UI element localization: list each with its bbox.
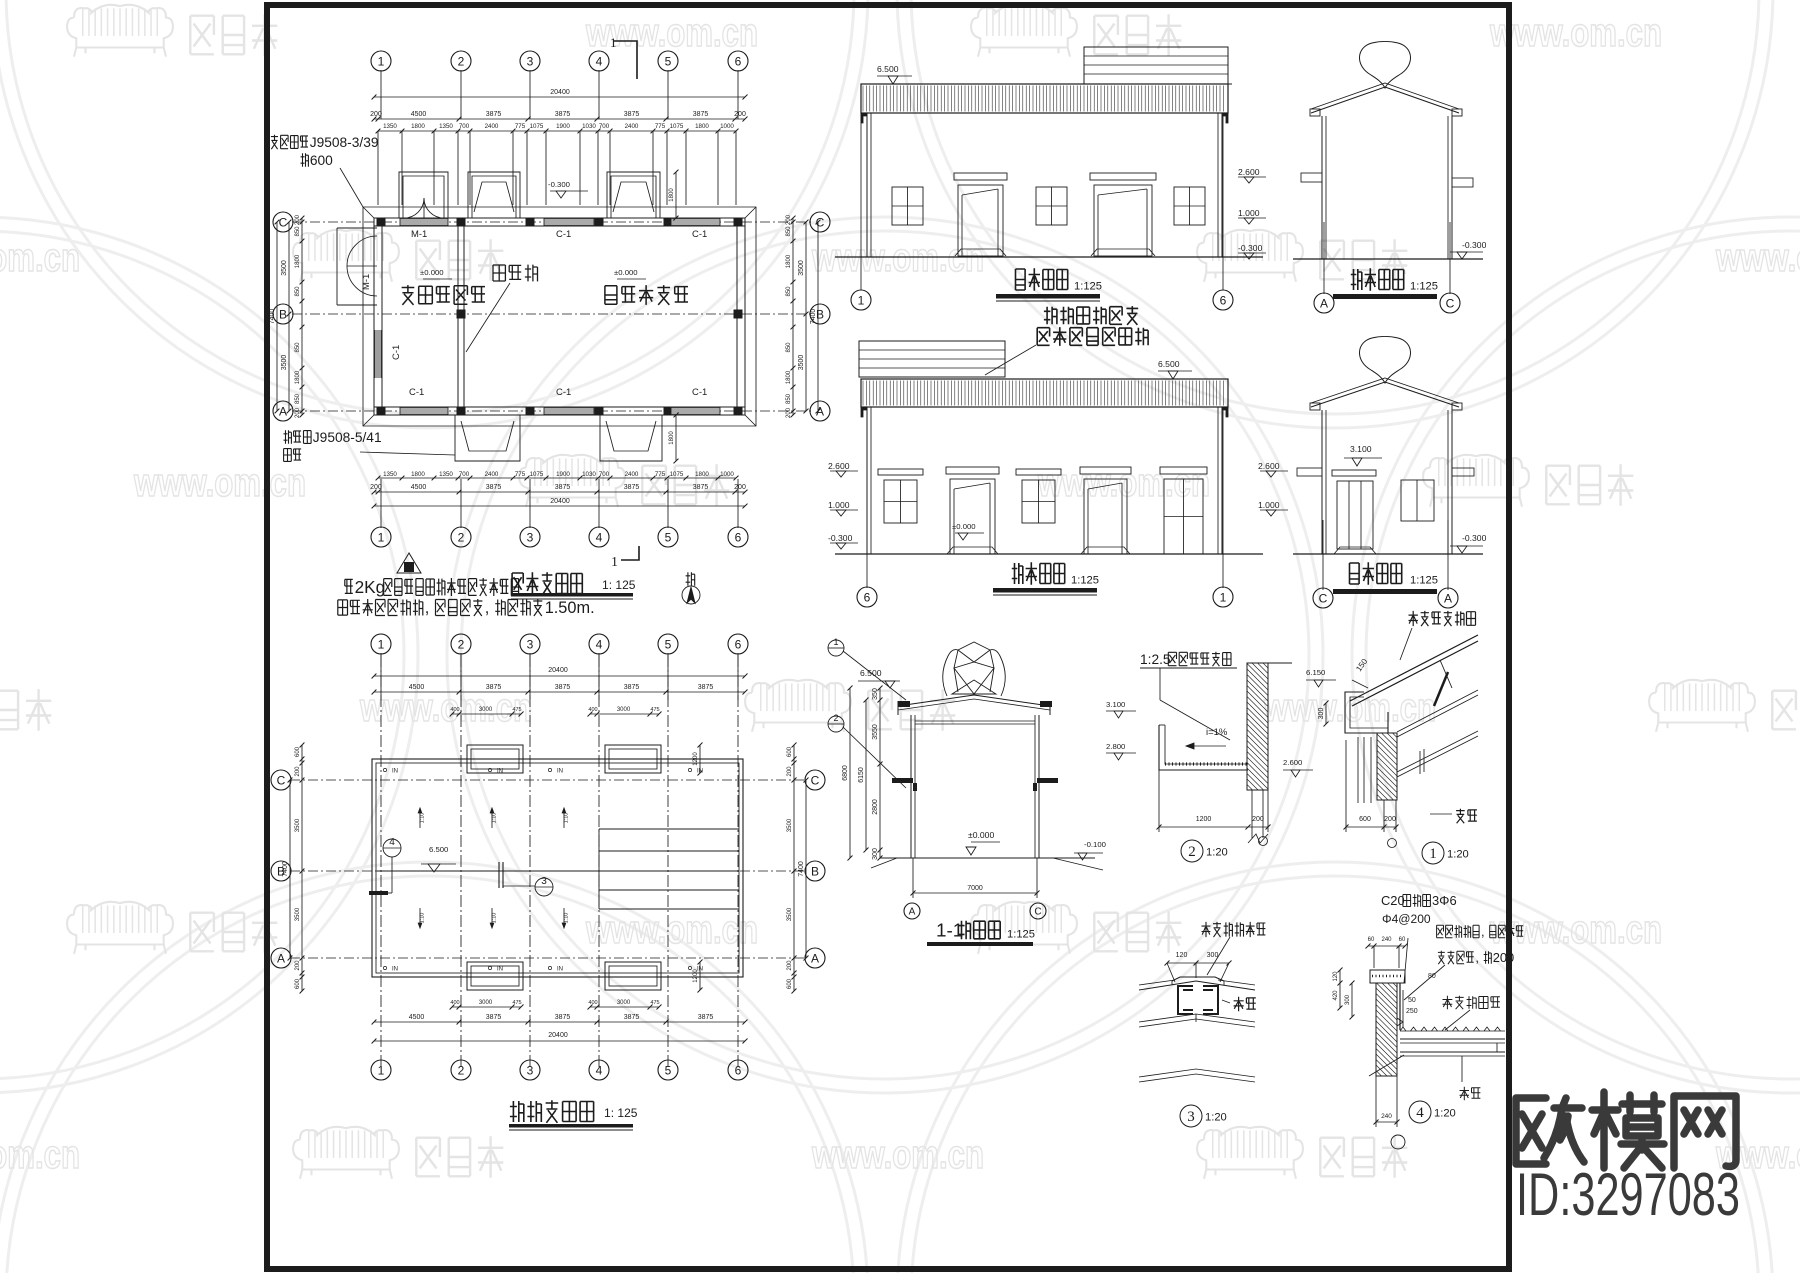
svg-text:3000: 3000 [479, 707, 493, 713]
svg-text:775: 775 [515, 123, 526, 130]
svg-text:3: 3 [527, 637, 534, 651]
svg-text:200: 200 [295, 766, 301, 777]
svg-text:120: 120 [1333, 971, 1339, 982]
svg-text:2: 2 [458, 1063, 465, 1077]
svg-text:600: 600 [295, 978, 301, 989]
svg-text:4500: 4500 [409, 1014, 425, 1021]
svg-text:50: 50 [1408, 997, 1416, 1004]
svg-text:5: 5 [665, 1063, 672, 1077]
svg-text:600: 600 [787, 978, 793, 989]
svg-text:1:2.5: 1:2.5 [1140, 652, 1171, 667]
svg-text:200: 200 [1252, 816, 1264, 823]
svg-text:-0.100: -0.100 [1084, 840, 1106, 849]
svg-text:1:10: 1:10 [564, 813, 570, 824]
svg-text:200: 200 [787, 766, 793, 777]
svg-text:1:10: 1:10 [420, 813, 426, 824]
svg-text:600: 600 [310, 153, 333, 168]
svg-text:775: 775 [515, 471, 526, 478]
detail 3 ridge 1:20 [1139, 922, 1265, 1127]
svg-text:1: 1 [378, 54, 385, 68]
svg-text:2.600: 2.600 [1238, 167, 1260, 177]
svg-text:1:20: 1:20 [1447, 848, 1469, 860]
svg-text:200: 200 [786, 407, 792, 418]
east elevation 东立面图 [1293, 42, 1487, 314]
svg-text:700: 700 [599, 471, 610, 478]
svg-text:20400: 20400 [548, 667, 568, 674]
roof plan 屋顶平面图 [271, 634, 825, 1130]
svg-text:www.om.cn: www.om.cn [1489, 908, 1662, 952]
svg-text:420: 420 [1333, 990, 1339, 1001]
svg-text:3500: 3500 [787, 818, 793, 832]
svg-text:475: 475 [512, 1000, 521, 1006]
svg-text:1.50m.: 1.50m. [545, 599, 595, 617]
svg-text:775: 775 [655, 471, 666, 478]
svg-text:1: 1 [858, 293, 865, 307]
svg-text:1000: 1000 [720, 123, 734, 130]
svg-text:,: , [425, 599, 430, 617]
svg-text:1030: 1030 [582, 471, 596, 478]
svg-text:1:125: 1:125 [1071, 574, 1099, 586]
svg-text:1900: 1900 [556, 471, 570, 478]
svg-text:850: 850 [295, 342, 301, 353]
svg-text:3500: 3500 [295, 818, 301, 832]
svg-text:600: 600 [787, 746, 793, 757]
svg-text:6.500: 6.500 [860, 668, 882, 678]
svg-text:3875: 3875 [555, 484, 571, 491]
svg-text:-0.300: -0.300 [548, 180, 570, 189]
svg-text:1800: 1800 [669, 431, 675, 445]
svg-text:2: 2 [458, 54, 465, 68]
svg-text:4: 4 [389, 837, 395, 848]
svg-text:3Φ6: 3Φ6 [1432, 893, 1457, 908]
svg-text:M-1: M-1 [411, 229, 427, 240]
svg-text:6: 6 [735, 54, 742, 68]
west elevation 西立面图 [1258, 337, 1487, 661]
svg-text:3875: 3875 [555, 684, 571, 691]
svg-text:3875: 3875 [698, 1014, 714, 1021]
svg-text:700: 700 [459, 123, 470, 130]
svg-text:A: A [1444, 591, 1452, 605]
svg-text:850: 850 [295, 226, 301, 237]
svg-text:3000: 3000 [617, 707, 631, 713]
svg-text:850: 850 [786, 226, 792, 237]
svg-text:C: C [1034, 907, 1041, 918]
svg-text:A: A [277, 951, 285, 965]
svg-text:3875: 3875 [486, 484, 502, 491]
svg-text:4: 4 [1416, 1105, 1424, 1121]
svg-text:400: 400 [450, 707, 459, 713]
svg-text:20400: 20400 [550, 89, 570, 96]
svg-text:1:125: 1:125 [1074, 280, 1102, 292]
svg-text:C-1: C-1 [556, 387, 571, 398]
svg-text:C: C [277, 773, 286, 787]
svg-text:5: 5 [665, 54, 672, 68]
svg-text:2400: 2400 [485, 471, 499, 478]
svg-text:J9508-5/41: J9508-5/41 [313, 430, 382, 445]
svg-text:B: B [816, 307, 824, 321]
svg-text:1075: 1075 [670, 123, 684, 130]
north elevation 北立面图 [828, 341, 1263, 607]
svg-text:3875: 3875 [555, 111, 571, 118]
svg-text:3000: 3000 [479, 1000, 493, 1006]
svg-text:3875: 3875 [486, 684, 502, 691]
ground floor plan 底层平面图 [269, 35, 830, 617]
svg-text:www.om.cn: www.om.cn [1489, 11, 1662, 55]
svg-text:1:125: 1:125 [1007, 928, 1035, 940]
svg-text:2.600: 2.600 [1283, 758, 1302, 767]
svg-text:www.om.cn: www.om.cn [133, 461, 306, 505]
svg-text:1-1: 1-1 [936, 921, 963, 942]
svg-text:±0.000: ±0.000 [968, 830, 994, 840]
svg-text:3: 3 [1187, 1109, 1195, 1125]
svg-text:850: 850 [295, 286, 301, 297]
svg-text:3500: 3500 [798, 260, 805, 276]
svg-text:2.600: 2.600 [1258, 461, 1280, 471]
svg-text:60: 60 [1399, 937, 1406, 943]
svg-text:A: A [1320, 296, 1328, 310]
svg-text:1:10: 1:10 [492, 813, 498, 824]
svg-text:B: B [279, 307, 287, 321]
svg-text:7400: 7400 [798, 861, 805, 877]
svg-text:300: 300 [1318, 708, 1325, 720]
svg-text:A: A [811, 951, 819, 965]
svg-text:475: 475 [650, 1000, 659, 1006]
svg-text:3500: 3500 [281, 355, 288, 371]
svg-text:1: 1 [833, 637, 838, 647]
svg-text:ID:3297083: ID:3297083 [1516, 1161, 1740, 1228]
svg-text:-0.300: -0.300 [1462, 240, 1487, 250]
svg-text:200: 200 [1493, 950, 1515, 965]
svg-text:850: 850 [786, 286, 792, 297]
section 1-1剖面图 [828, 637, 1106, 946]
svg-text:200: 200 [1384, 816, 1396, 823]
svg-text:3500: 3500 [798, 355, 805, 371]
detail 1 eave 1:20 [1306, 635, 1478, 864]
svg-text:IN: IN [557, 967, 563, 973]
svg-text:1800: 1800 [295, 254, 301, 268]
svg-text:80: 80 [1428, 973, 1436, 980]
svg-text:1350: 1350 [439, 123, 453, 130]
svg-text:1800: 1800 [411, 123, 425, 130]
south elevation 南立面图 [835, 47, 1266, 375]
svg-text:1200: 1200 [1196, 816, 1212, 823]
svg-text:700: 700 [599, 123, 610, 130]
svg-text:,: , [485, 599, 490, 617]
svg-text:3875: 3875 [624, 684, 640, 691]
svg-text:C: C [1446, 296, 1455, 310]
svg-text:200: 200 [370, 111, 382, 118]
svg-text:C-1: C-1 [556, 229, 571, 240]
svg-text:7400: 7400 [810, 309, 817, 325]
svg-text:3000: 3000 [617, 1000, 631, 1006]
svg-text:475: 475 [650, 707, 659, 713]
svg-text:300: 300 [872, 848, 879, 860]
svg-text:1000: 1000 [720, 471, 734, 478]
svg-text:www.om.cn: www.om.cn [585, 908, 758, 952]
svg-text:300: 300 [1207, 952, 1219, 959]
svg-text:IN: IN [497, 967, 503, 973]
svg-text:2.800: 2.800 [1106, 742, 1125, 751]
svg-text:1350: 1350 [439, 471, 453, 478]
svg-text:2400: 2400 [485, 123, 499, 130]
svg-text:1: 1 [378, 1063, 385, 1077]
svg-text:-0.300: -0.300 [1238, 243, 1263, 253]
svg-text:1:20: 1:20 [1205, 1111, 1227, 1123]
svg-text:850: 850 [786, 342, 792, 353]
svg-text:1.000: 1.000 [1238, 208, 1260, 218]
svg-text:1800: 1800 [786, 254, 792, 268]
svg-text:2400: 2400 [625, 123, 639, 130]
svg-text:2.600: 2.600 [828, 461, 850, 471]
svg-text:6: 6 [864, 590, 871, 604]
svg-text:400: 400 [450, 1000, 459, 1006]
svg-text:IN: IN [557, 769, 563, 775]
svg-text:240: 240 [1381, 937, 1392, 943]
svg-text:i=1%: i=1% [1206, 727, 1228, 738]
svg-text:6150: 6150 [858, 767, 865, 783]
svg-text:6800: 6800 [842, 765, 849, 781]
svg-text:3875: 3875 [693, 111, 709, 118]
svg-text:850: 850 [295, 393, 301, 404]
svg-text:M-1: M-1 [361, 274, 372, 290]
svg-text:200: 200 [295, 407, 301, 418]
svg-text:600: 600 [295, 746, 301, 757]
svg-text:475: 475 [512, 707, 521, 713]
svg-text:4: 4 [596, 54, 603, 68]
svg-text:1: 1 [610, 35, 617, 50]
svg-text:200: 200 [786, 214, 792, 225]
svg-text:350: 350 [872, 688, 879, 700]
svg-text:1.000: 1.000 [828, 500, 850, 510]
svg-text:1:125: 1:125 [1410, 574, 1438, 586]
svg-text:3875: 3875 [693, 484, 709, 491]
svg-text:6: 6 [1220, 293, 1227, 307]
svg-text:2: 2 [1188, 844, 1196, 860]
svg-text:1030: 1030 [582, 123, 596, 130]
svg-text:1: 1 [378, 637, 385, 651]
svg-text:C-1: C-1 [409, 387, 424, 398]
svg-text:Φ4@200: Φ4@200 [1382, 912, 1431, 926]
svg-text:1:10: 1:10 [492, 913, 498, 924]
svg-text:775: 775 [655, 123, 666, 130]
svg-text:3875: 3875 [486, 1014, 502, 1021]
svg-text:3500: 3500 [295, 907, 301, 921]
svg-text:1:20: 1:20 [1206, 846, 1228, 858]
svg-text:IN: IN [497, 769, 503, 775]
svg-text:1: 1 [611, 555, 618, 570]
svg-text:7400: 7400 [282, 861, 289, 877]
svg-text:20400: 20400 [548, 1032, 568, 1039]
svg-text:200: 200 [787, 960, 793, 971]
svg-text:6.500: 6.500 [877, 64, 899, 74]
svg-text:3500: 3500 [281, 260, 288, 276]
svg-text:1350: 1350 [383, 123, 397, 130]
svg-text:C: C [1319, 591, 1328, 605]
svg-text:IN: IN [392, 967, 398, 973]
svg-text:20400: 20400 [550, 498, 570, 505]
svg-text:3500: 3500 [787, 907, 793, 921]
svg-text:600: 600 [1359, 816, 1371, 823]
svg-text:240: 240 [1381, 1113, 1392, 1120]
svg-text:1: 1 [1429, 846, 1437, 862]
svg-text:www.om.cn: www.om.cn [0, 1133, 80, 1177]
svg-text:1:125: 1:125 [1410, 280, 1438, 292]
svg-text:300: 300 [1345, 994, 1351, 1005]
svg-text:6.500: 6.500 [1158, 359, 1180, 369]
svg-text:3550: 3550 [872, 724, 879, 740]
svg-text:C: C [279, 215, 288, 229]
svg-text:4: 4 [596, 637, 603, 651]
svg-text:2400: 2400 [625, 471, 639, 478]
svg-text:1: 1 [1220, 590, 1227, 604]
svg-text:1:20: 1:20 [1434, 1107, 1456, 1119]
svg-text:250: 250 [1406, 1008, 1418, 1015]
svg-text:200: 200 [734, 484, 746, 491]
svg-text:3875: 3875 [624, 1014, 640, 1021]
svg-text:1800: 1800 [669, 188, 675, 202]
svg-text:200: 200 [734, 111, 746, 118]
svg-text:3: 3 [527, 1063, 534, 1077]
svg-text:1.000: 1.000 [1258, 500, 1280, 510]
svg-text:1200: 1200 [693, 752, 699, 766]
svg-text:4500: 4500 [411, 111, 427, 118]
svg-text:1200: 1200 [693, 969, 699, 983]
svg-text:3: 3 [541, 876, 547, 887]
svg-text:www.om.cn: www.om.cn [811, 1133, 984, 1177]
svg-text:4: 4 [596, 1063, 603, 1077]
svg-text:±0.000: ±0.000 [952, 522, 976, 531]
svg-text:IN: IN [392, 769, 398, 775]
svg-text:1: 125: 1: 125 [604, 1106, 638, 1120]
svg-text:-0.300: -0.300 [1462, 533, 1487, 543]
svg-text:±0.000: ±0.000 [614, 268, 638, 277]
svg-text:www.om.cn: www.om.cn [1715, 236, 1800, 280]
svg-text:1800: 1800 [695, 123, 709, 130]
svg-text:3875: 3875 [486, 111, 502, 118]
detail 2 gutter 1:20 [1106, 652, 1313, 862]
svg-text:1:10: 1:10 [564, 913, 570, 924]
svg-text:200: 200 [370, 484, 382, 491]
svg-text:1800: 1800 [411, 471, 425, 478]
svg-text:1075: 1075 [670, 471, 684, 478]
svg-text:3875: 3875 [698, 684, 714, 691]
svg-text:1075: 1075 [530, 471, 544, 478]
svg-text:±0.000: ±0.000 [420, 268, 444, 277]
svg-text:-0.300: -0.300 [828, 533, 853, 543]
svg-text:6.150: 6.150 [1306, 668, 1325, 677]
svg-text:2: 2 [458, 530, 465, 544]
svg-text:6: 6 [735, 637, 742, 651]
svg-text:3: 3 [527, 530, 534, 544]
svg-text:4500: 4500 [409, 684, 425, 691]
svg-text:5: 5 [665, 637, 672, 651]
svg-text:3875: 3875 [555, 1014, 571, 1021]
svg-text:1:10: 1:10 [420, 913, 426, 924]
svg-text:,: , [1481, 924, 1485, 939]
svg-text:C-1: C-1 [692, 387, 707, 398]
svg-text:850: 850 [786, 393, 792, 404]
svg-text:400: 400 [588, 1000, 597, 1006]
svg-text:2800: 2800 [872, 799, 879, 815]
svg-text:700: 700 [459, 471, 470, 478]
svg-text:C20: C20 [1381, 893, 1405, 908]
svg-text:6: 6 [735, 530, 742, 544]
svg-text:C-1: C-1 [391, 345, 402, 360]
drawing border frame [267, 5, 1509, 1269]
svg-text:3.100: 3.100 [1106, 700, 1125, 709]
svg-text:B: B [811, 864, 819, 878]
svg-text:200: 200 [295, 214, 301, 225]
svg-text:1: 125: 1: 125 [602, 578, 636, 592]
svg-text:60: 60 [1368, 937, 1375, 943]
svg-text:7400: 7400 [269, 309, 276, 325]
svg-text:1350: 1350 [383, 471, 397, 478]
detail 4 parapet 1:20 [1333, 893, 1523, 1149]
svg-text:2: 2 [458, 637, 465, 651]
svg-text:1075: 1075 [530, 123, 544, 130]
svg-text:200: 200 [295, 960, 301, 971]
svg-text:C-1: C-1 [692, 229, 707, 240]
svg-text:A: A [279, 404, 287, 418]
svg-text:4500: 4500 [411, 484, 427, 491]
svg-text:120: 120 [1176, 952, 1188, 959]
svg-text:400: 400 [588, 707, 597, 713]
svg-text:,: , [1475, 950, 1479, 965]
svg-text:1: 1 [378, 530, 385, 544]
svg-text:A: A [909, 907, 916, 918]
svg-text:6.500: 6.500 [429, 845, 448, 854]
svg-text:6: 6 [735, 1063, 742, 1077]
svg-text:3875: 3875 [624, 111, 640, 118]
svg-text:1800: 1800 [786, 370, 792, 384]
svg-text:www.om.cn: www.om.cn [0, 236, 80, 280]
svg-text:3.100: 3.100 [1350, 444, 1372, 454]
svg-text:2: 2 [833, 713, 838, 723]
svg-text:2Kg: 2Kg [355, 577, 386, 597]
svg-text:1900: 1900 [556, 123, 570, 130]
svg-text:3875: 3875 [624, 484, 640, 491]
svg-text:7000: 7000 [967, 885, 983, 892]
svg-text:C: C [811, 773, 820, 787]
svg-text:4: 4 [596, 530, 603, 544]
svg-text:J9508-3/39: J9508-3/39 [310, 135, 379, 150]
svg-text:www.om.cn: www.om.cn [1037, 461, 1210, 505]
svg-text:www.om.cn: www.om.cn [359, 686, 532, 730]
svg-text:5: 5 [665, 530, 672, 544]
svg-text:1800: 1800 [695, 471, 709, 478]
svg-text:1800: 1800 [295, 370, 301, 384]
site logo 欧模网 + ID [1516, 1092, 1736, 1168]
svg-text:3: 3 [527, 54, 534, 68]
